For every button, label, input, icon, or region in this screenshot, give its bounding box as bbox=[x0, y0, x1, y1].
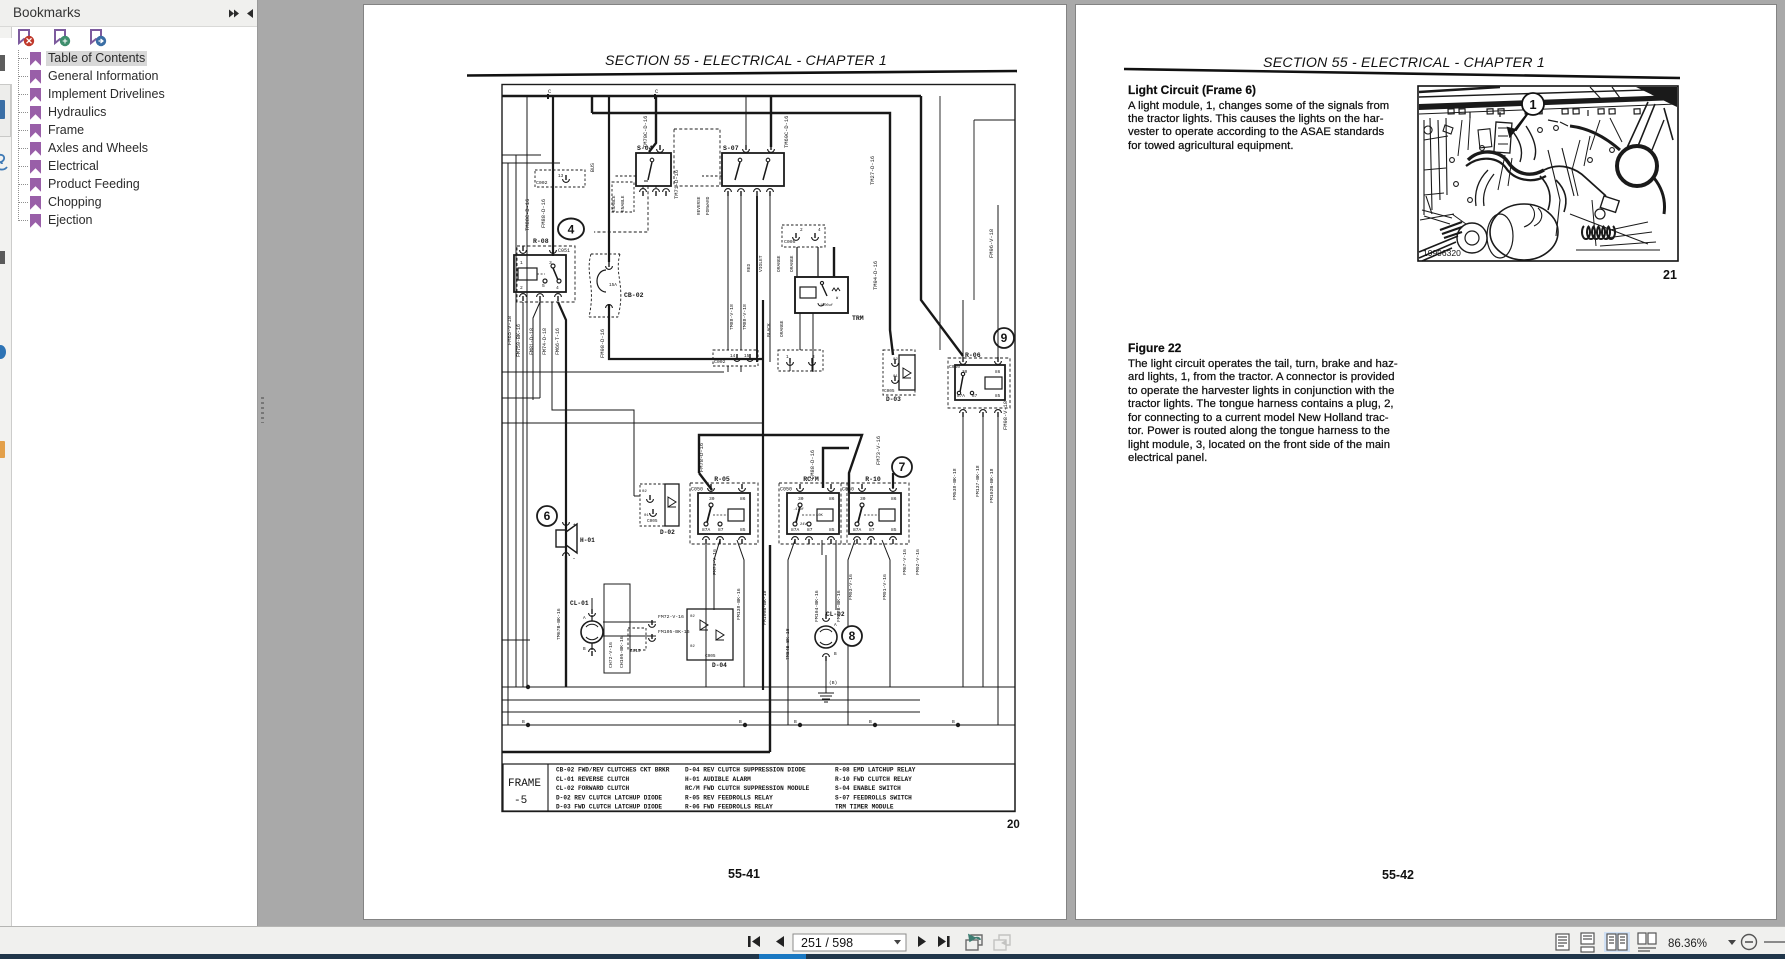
svg-text:SECTION 55 - ELECTRICAL - CHAP: SECTION 55 - ELECTRICAL - CHAPTER 1 bbox=[1263, 55, 1545, 71]
svg-text:19996320: 19996320 bbox=[1423, 248, 1461, 258]
svg-text:251 / 598: 251 / 598 bbox=[801, 936, 853, 950]
svg-text:✕: ✕ bbox=[25, 36, 33, 46]
svg-text:+: + bbox=[62, 36, 67, 46]
svg-text:55-42: 55-42 bbox=[1382, 868, 1414, 882]
svg-text:21: 21 bbox=[1663, 268, 1677, 282]
svg-text:86.36%: 86.36% bbox=[1668, 938, 1707, 950]
svg-text:1: 1 bbox=[1529, 97, 1536, 112]
